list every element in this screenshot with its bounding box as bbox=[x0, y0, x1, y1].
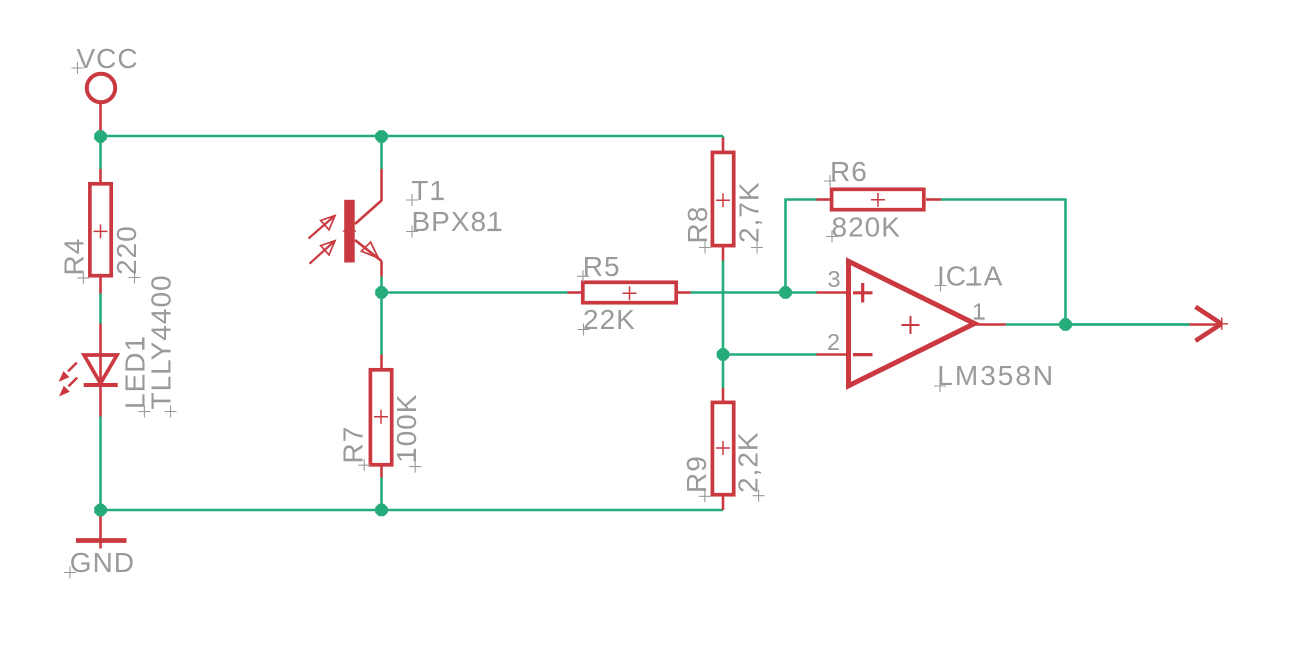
svg-text:R4: R4 bbox=[58, 238, 89, 276]
svg-text:100K: 100K bbox=[391, 394, 422, 463]
svg-text:2,2K: 2,2K bbox=[733, 431, 764, 493]
svg-text:R9: R9 bbox=[681, 455, 712, 493]
svg-text:R6: R6 bbox=[830, 156, 868, 187]
svg-text:3: 3 bbox=[828, 266, 841, 292]
svg-text:R5: R5 bbox=[583, 251, 621, 282]
svg-text:820K: 820K bbox=[832, 212, 901, 243]
svg-text:220: 220 bbox=[111, 225, 142, 275]
svg-text:BPX81: BPX81 bbox=[412, 206, 504, 237]
svg-text:GND: GND bbox=[70, 547, 135, 578]
svg-text:T1: T1 bbox=[411, 175, 446, 206]
svg-text:LM358N: LM358N bbox=[937, 360, 1055, 391]
svg-text:R7: R7 bbox=[338, 426, 369, 464]
svg-text:1: 1 bbox=[972, 299, 985, 325]
svg-text:VCC: VCC bbox=[77, 43, 139, 74]
svg-text:R8: R8 bbox=[682, 206, 713, 244]
svg-text:IC1A: IC1A bbox=[937, 261, 1003, 292]
svg-text:2,7K: 2,7K bbox=[734, 181, 765, 243]
svg-text:TLLY4400: TLLY4400 bbox=[146, 274, 177, 409]
svg-text:22K: 22K bbox=[583, 304, 636, 335]
svg-text:2: 2 bbox=[827, 329, 840, 355]
